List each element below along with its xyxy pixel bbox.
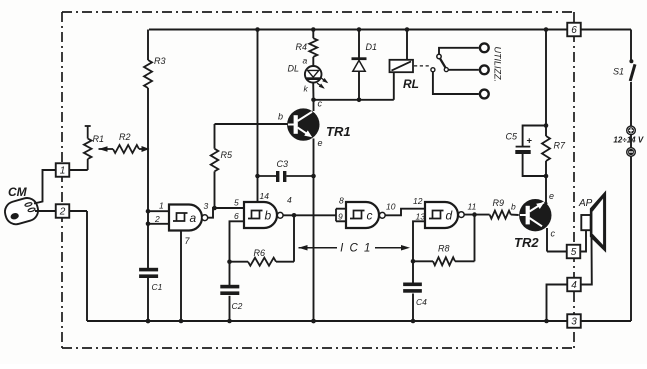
svg-text:RL: RL [403,77,419,91]
svg-text:R9: R9 [493,198,505,208]
svg-text:DL: DL [288,64,300,74]
svg-text:e: e [549,191,554,201]
svg-text:b: b [278,112,283,122]
svg-text:4: 4 [287,195,292,205]
svg-text:3: 3 [204,201,209,211]
svg-text:3: 3 [571,317,577,328]
svg-text:R5: R5 [221,150,233,160]
svg-text:12÷14 V: 12÷14 V [613,135,643,144]
svg-text:2: 2 [154,214,160,224]
svg-text:b: b [265,209,272,223]
svg-text:10: 10 [386,202,396,212]
svg-text:+: + [527,136,533,147]
svg-text:6: 6 [571,25,577,36]
svg-text:UTILIZZ.: UTILIZZ. [493,47,503,83]
svg-text:R6: R6 [254,248,266,258]
svg-text:12: 12 [413,196,423,206]
svg-text:R8: R8 [438,244,450,254]
svg-text:AP: AP [578,198,593,209]
svg-text:b: b [511,202,516,212]
svg-text:C2: C2 [232,301,243,311]
svg-text:R1: R1 [93,134,105,144]
svg-text:C4: C4 [416,297,427,307]
svg-text:2: 2 [59,207,66,218]
svg-text:1: 1 [159,201,164,211]
svg-text:S1: S1 [613,67,624,77]
svg-text:C1: C1 [152,282,163,292]
svg-text:CM: CM [8,185,28,199]
svg-text:TR2: TR2 [514,235,539,250]
svg-text:5: 5 [234,198,239,208]
svg-text:14: 14 [260,191,270,201]
svg-text:R7: R7 [554,141,566,151]
svg-text:a: a [190,211,197,225]
svg-text:I C 1: I C 1 [340,243,372,255]
svg-text:9: 9 [338,212,343,222]
svg-text:e: e [318,138,323,148]
svg-text:a: a [303,56,308,66]
svg-text:c: c [367,209,373,223]
svg-text:d: d [446,209,453,223]
svg-text:R2: R2 [119,132,131,142]
svg-text:TR1: TR1 [326,124,351,139]
svg-text:4: 4 [571,280,577,291]
svg-text:11: 11 [468,202,477,212]
svg-text:C5: C5 [506,132,518,142]
svg-text:5: 5 [571,247,577,258]
svg-text:R3: R3 [154,56,166,66]
svg-text:c: c [551,229,556,239]
svg-text:6: 6 [234,211,239,221]
svg-text:1: 1 [60,166,66,177]
svg-text:13: 13 [416,212,426,222]
svg-text:8: 8 [339,196,344,206]
svg-text:R4: R4 [296,42,308,52]
svg-text:D1: D1 [366,42,378,52]
svg-text:C3: C3 [277,159,289,169]
